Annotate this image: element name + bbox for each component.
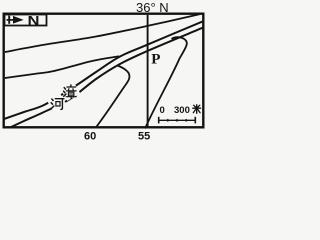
river name halo bbox=[61, 83, 80, 101]
scale bar right tick bbox=[194, 117, 196, 124]
river upper bank bbox=[4, 21, 203, 119]
svg-text:N: N bbox=[28, 13, 40, 28]
scale bar mid tick 2 bbox=[176, 119, 178, 122]
meridian line 36N vertical bbox=[147, 15, 149, 127]
svg-text:60: 60 bbox=[84, 130, 96, 142]
svg-text:0: 0 bbox=[160, 105, 165, 116]
scale label meters (drawn asterisk-like glyph) bbox=[193, 105, 201, 113]
north arrow shaft bbox=[7, 19, 22, 21]
contour line A upper-left bbox=[5, 14, 200, 52]
svg-text:300: 300 bbox=[174, 105, 190, 116]
scale bar mid tick 1 bbox=[167, 119, 169, 122]
river name char He (drawn strokes) bbox=[51, 99, 64, 110]
river lower bank bbox=[10, 28, 203, 128]
scale bar mid tick 3 bbox=[185, 119, 187, 122]
north arrow crossbar bbox=[8, 16, 10, 24]
svg-text:P: P bbox=[151, 51, 160, 67]
svg-text:55: 55 bbox=[138, 130, 150, 142]
map frame bbox=[4, 14, 204, 128]
contour 55 bbox=[145, 37, 187, 128]
north arrow box bbox=[5, 15, 47, 26]
river name char Zhang (drawn strokes) bbox=[64, 85, 77, 99]
north arrow head bbox=[13, 16, 24, 24]
contour 60 bbox=[96, 65, 130, 128]
contour line B upper-left bbox=[5, 56, 119, 78]
scale bar left tick bbox=[158, 117, 160, 124]
scale bar line bbox=[159, 119, 196, 121]
